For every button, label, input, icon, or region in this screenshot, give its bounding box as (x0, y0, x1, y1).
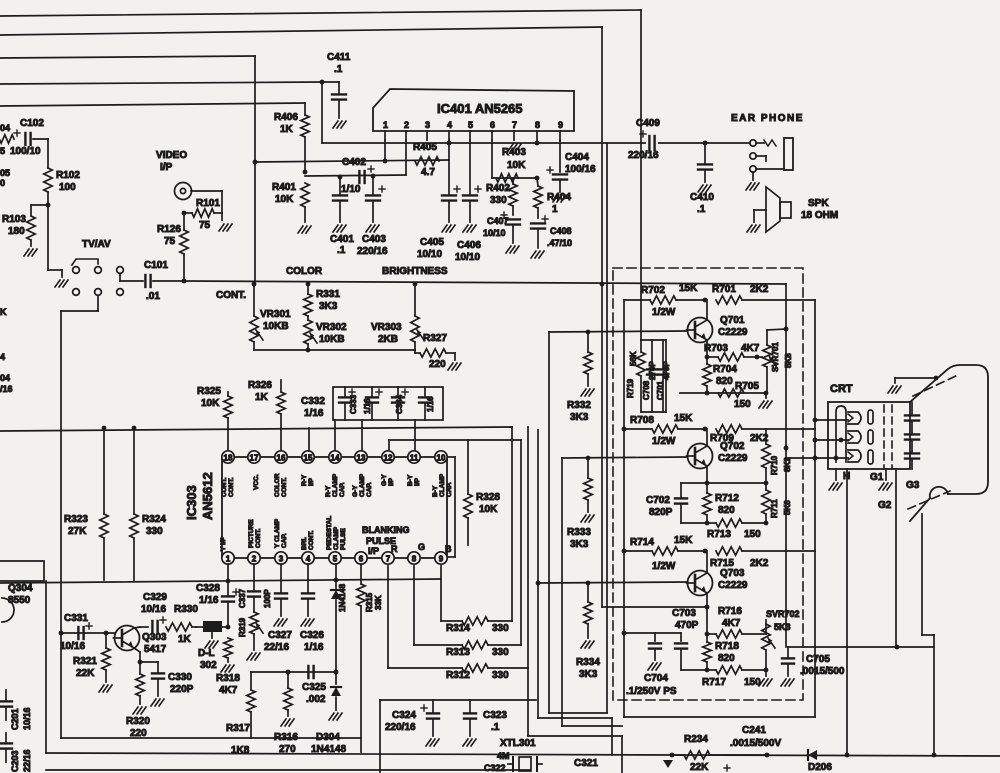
svg-text:R403: R403 (502, 147, 526, 158)
capacitor C323 (469, 700, 471, 712)
wire R312 x=528 (527, 427, 529, 736)
svg-text:B-Y: B-Y (432, 485, 439, 497)
node SVR701 wiper bus (784, 327, 789, 332)
svg-text:CLAMP: CLAMP (332, 473, 339, 497)
wire R703 to SVR701 (757, 356, 762, 358)
svg-text:R404: R404 (547, 192, 571, 203)
svg-text:220/16: 220/16 (357, 246, 388, 257)
svg-text:R708: R708 (630, 415, 654, 426)
resistor R319 (250, 612, 258, 634)
pedestal cap box (333, 387, 443, 420)
svg-text:R102: R102 (56, 170, 80, 181)
svg-text:C701: C701 (656, 380, 665, 400)
wire vertical x=255 (254, 56, 256, 285)
svg-text:G-Y: G-Y (381, 474, 388, 486)
svg-text:VCC.: VCC. (253, 474, 260, 490)
CRT bell outline (910, 365, 988, 494)
svg-text:CAP.: CAP. (366, 482, 373, 497)
IC U-IC303 AN5612 box (222, 457, 447, 558)
ground pin7 IC401 (508, 144, 513, 151)
resistor R404 (537, 178, 538, 186)
wire y=428 long (0, 427, 512, 431)
wire x=46 (45, 581, 47, 753)
resistor R712 (706, 483, 708, 493)
svg-text:330: 330 (146, 526, 163, 537)
svg-text:R315: R315 (365, 592, 374, 612)
svg-text:C408: C408 (550, 226, 572, 236)
resistor R126 (183, 213, 185, 230)
resistor R103 (31, 204, 48, 206)
svg-text:R318: R318 (216, 673, 240, 684)
svg-text:VR302: VR302 (316, 322, 347, 333)
svg-text:PULSE: PULSE (340, 528, 347, 550)
wire top bus line 3 (0, 56, 255, 58)
node R323 (102, 426, 107, 431)
resistor R406 (304, 103, 306, 115)
svg-text:C2229: C2229 (718, 453, 748, 464)
svg-text:4K7: 4K7 (741, 343, 760, 354)
svg-text:PEDESTAL: PEDESTAL (326, 516, 333, 550)
wire top bus line 4 (0, 82, 322, 84)
CRT cathode wire K3 (786, 457, 848, 459)
wire pin8 to R313 row (413, 566, 415, 645)
node R126 top (182, 211, 187, 216)
svg-text:5: 5 (0, 146, 5, 156)
box bottom center (380, 699, 536, 701)
svg-text:G1: G1 (870, 472, 884, 483)
wire Q701 emitter (706, 340, 708, 357)
node DL junction (226, 625, 231, 630)
svg-text:R314: R314 (446, 623, 470, 634)
node VR301 top (252, 282, 257, 287)
wire C704 row (624, 632, 681, 634)
node R324 (132, 426, 137, 431)
wire y=770 (46, 769, 530, 771)
resistor R705 (718, 389, 744, 397)
svg-text:R324: R324 (142, 514, 166, 525)
resistor R703 row (707, 356, 718, 358)
svg-text:220/16: 220/16 (628, 150, 659, 161)
pot SVR702 (765, 620, 767, 634)
svg-text:1: 1 (226, 555, 231, 564)
resistor R719 (640, 340, 642, 352)
svg-text:17: 17 (250, 454, 259, 463)
svg-text:10KB: 10KB (319, 334, 345, 345)
svg-text:R701: R701 (712, 284, 736, 295)
svg-text:302: 302 (200, 660, 217, 671)
svg-text:CONT.: CONT. (221, 477, 228, 497)
svg-text:Q703: Q703 (720, 568, 745, 579)
svg-text:R323: R323 (64, 514, 88, 525)
svg-text:9: 9 (558, 120, 563, 130)
capacitor C703 (680, 633, 682, 641)
svg-text:75: 75 (164, 236, 176, 247)
svg-text:8550: 8550 (8, 595, 31, 606)
node C411 junction (320, 80, 325, 85)
wire Q701 collector (706, 300, 708, 320)
svg-text:10K: 10K (275, 194, 294, 205)
svg-text:CLAMP: CLAMP (359, 473, 366, 497)
svg-text:BRI.: BRI. (301, 537, 308, 550)
svg-text:R711: R711 (770, 499, 779, 518)
capacitor C325 row (251, 671, 336, 673)
wire C705 row y=647 (788, 646, 934, 648)
svg-text:15: 15 (304, 454, 313, 463)
resistor R328 (467, 440, 469, 494)
svg-text:5K6: 5K6 (783, 500, 792, 515)
svg-text:CAP.: CAP. (339, 482, 346, 497)
wire R314 up x=512 (511, 427, 513, 621)
transistor Q701 (688, 318, 713, 343)
IC401 pin stubs (384, 131, 386, 140)
node R334 top (586, 581, 591, 586)
svg-text:5417: 5417 (144, 644, 167, 655)
svg-text:470P: 470P (662, 361, 671, 380)
svg-text:R327: R327 (423, 333, 447, 344)
resistor R702 row (624, 299, 650, 301)
svg-text:220: 220 (429, 359, 446, 370)
svg-text:COLOR: COLOR (274, 473, 281, 497)
svg-text:R234: R234 (684, 734, 708, 745)
svg-text:15K: 15K (679, 283, 698, 294)
wire R313 up x=521 (520, 440, 522, 645)
svg-text:330: 330 (492, 623, 509, 634)
svg-text:12: 12 (384, 454, 393, 463)
svg-text:2K2: 2K2 (750, 558, 769, 569)
ground CRT H pin (835, 469, 837, 480)
resistor R102 (47, 139, 49, 168)
capacitor C708 (651, 340, 653, 368)
svg-text:R312: R312 (446, 670, 470, 681)
svg-text:R713: R713 (707, 529, 731, 540)
svg-text:.002: .002 (306, 694, 326, 705)
label C241 (724, 767, 730, 769)
svg-text:R703: R703 (704, 343, 728, 354)
IC303 top pins (222, 451, 234, 463)
svg-text:1N4148: 1N4148 (338, 583, 347, 612)
resistor R313 (414, 644, 462, 646)
svg-text:1/10: 1/10 (341, 184, 361, 195)
resistor R708 row (624, 428, 652, 430)
svg-text:C403: C403 (362, 234, 386, 245)
svg-text:R321: R321 (73, 656, 97, 667)
svg-text:04: 04 (0, 373, 10, 383)
CRT gun 3 (848, 450, 861, 462)
wire x=786 wiper bus (785, 284, 787, 647)
svg-text:18 OHM: 18 OHM (801, 210, 838, 221)
svg-text:R326: R326 (248, 380, 272, 391)
wire Q702 emitter rail (681, 482, 766, 484)
node R401 top (303, 170, 308, 175)
svg-text:15K: 15K (674, 535, 693, 546)
svg-text:14: 14 (331, 454, 340, 463)
CRT cathode wire K2 (815, 439, 848, 441)
svg-text:15K: 15K (674, 413, 693, 424)
CRT funnel lines (921, 514, 923, 635)
ground R101 (221, 213, 223, 220)
node bus x934 (932, 753, 937, 758)
svg-text:.47/10: .47/10 (547, 238, 572, 248)
wire vertical x=61 (60, 311, 62, 738)
svg-text:10/16: 10/16 (60, 641, 85, 652)
svg-text:2: 2 (252, 555, 257, 564)
svg-text:C2229: C2229 (718, 580, 748, 591)
node pin8 chain (535, 176, 540, 181)
svg-text:R-Y: R-Y (325, 485, 332, 497)
wire pin6 stub (491, 140, 493, 178)
svg-text:R718: R718 (715, 641, 739, 652)
node C101-R126 (182, 279, 187, 284)
node pin1 line (226, 579, 231, 584)
svg-text:33K: 33K (374, 595, 383, 610)
svg-text:C325: C325 (302, 682, 326, 693)
node R716 row (705, 632, 710, 637)
svg-text:C332: C332 (301, 396, 325, 407)
wire y=738 (61, 737, 361, 739)
resistor R405 (415, 157, 439, 165)
resistor R333 (587, 458, 589, 478)
svg-text:5K3: 5K3 (774, 622, 791, 632)
svg-text:10KB: 10KB (263, 321, 289, 332)
resistor R701 (716, 296, 742, 304)
svg-text:G-Y: G-Y (352, 485, 359, 497)
resistor R330 (166, 623, 192, 631)
svg-text:22K: 22K (690, 762, 709, 773)
svg-text:1K: 1K (280, 124, 294, 135)
node R333 top (586, 456, 591, 461)
svg-text:4K7: 4K7 (722, 618, 741, 629)
svg-text:6: 6 (359, 555, 364, 564)
capacitor C704 (654, 633, 656, 641)
svg-text:820: 820 (716, 376, 733, 387)
svg-text:.1: .1 (337, 245, 346, 256)
svg-text:1/16: 1/16 (304, 642, 324, 653)
resistor R101 (214, 212, 222, 214)
node pin1 (383, 159, 388, 164)
svg-text:100/10: 100/10 (10, 146, 41, 157)
svg-text:22K: 22K (76, 668, 95, 679)
diode D304 (335, 672, 337, 684)
resistor R718 (706, 634, 708, 642)
resistor R315 (360, 564, 362, 584)
node emitter rail (138, 660, 143, 665)
wire vertical bus x=641 (640, 10, 642, 340)
svg-text:10K: 10K (201, 398, 220, 409)
dashed box PS section (613, 268, 803, 700)
svg-text:B: B (445, 544, 452, 554)
capacitor C410 (704, 143, 706, 163)
svg-text:IC401 AN5265: IC401 AN5265 (437, 101, 523, 116)
svg-text:R705: R705 (735, 381, 759, 392)
capacitor C334 (397, 387, 399, 396)
node C410 top (703, 141, 708, 146)
capacitor C408 (542, 218, 548, 220)
svg-text:.0015/500V: .0015/500V (730, 738, 781, 749)
resistor R324 (133, 428, 135, 514)
svg-text:1/2W: 1/2W (652, 307, 676, 318)
IC U-IC401 AN5265 box (373, 89, 574, 131)
svg-text:220P: 220P (170, 684, 194, 695)
node pin4 on y143 (447, 141, 452, 146)
svg-text:C102: C102 (20, 118, 44, 129)
svg-text:1K: 1K (255, 392, 269, 403)
pot VR303 (414, 284, 416, 316)
svg-text:C201: C201 (10, 708, 20, 730)
svg-text:3: 3 (425, 120, 430, 130)
capacitor C404 (559, 140, 561, 172)
wire Q703 collector (706, 551, 708, 572)
svg-text:C333: C333 (349, 394, 358, 414)
node R321 top (104, 631, 109, 636)
node R708-R709 (703, 427, 708, 432)
wire pot bottom rail (254, 349, 415, 351)
delay line D-L 302 (196, 626, 203, 628)
svg-text:1/2W: 1/2W (652, 436, 676, 447)
svg-text:K: K (0, 307, 7, 317)
svg-text:820P: 820P (649, 507, 673, 518)
capacitor C326 pin4 (307, 564, 309, 592)
svg-text:I/P: I/P (368, 546, 379, 556)
svg-text:10/10: 10/10 (417, 249, 442, 260)
svg-text:820: 820 (718, 653, 735, 664)
wire top bus line 2 (0, 27, 602, 35)
svg-text:R320: R320 (126, 716, 150, 727)
transistor Q303 (115, 626, 140, 651)
resistor R317 (250, 672, 252, 690)
svg-text:330: 330 (492, 647, 509, 658)
svg-text:CONT.: CONT. (216, 290, 246, 301)
svg-text:C410: C410 (690, 192, 714, 203)
wire pin1 row y=162 (255, 160, 449, 162)
wire R717 row (681, 669, 707, 671)
svg-text:2KB: 2KB (378, 334, 398, 345)
svg-text:05: 05 (0, 168, 10, 178)
svg-text:13: 13 (357, 454, 366, 463)
capacitor C407 (506, 218, 520, 220)
svg-text:.1: .1 (334, 64, 343, 75)
svg-text:R332: R332 (567, 400, 591, 411)
capacitor C405 (448, 160, 450, 194)
svg-text:R-Y: R-Y (301, 474, 308, 486)
svg-text:.0015/500: .0015/500 (800, 666, 845, 677)
svg-text:3K3: 3K3 (579, 669, 598, 680)
capacitor C401 (339, 177, 341, 194)
node R714 row left (622, 549, 627, 554)
svg-text:CLAMP: CLAMP (333, 526, 340, 550)
svg-text:C2229: C2229 (718, 327, 748, 338)
svg-text:5: 5 (468, 120, 473, 130)
capacitor C705 (787, 647, 789, 657)
svg-text:18: 18 (224, 454, 233, 463)
node R102 bottom (46, 203, 51, 208)
svg-text:4: 4 (0, 352, 5, 362)
svg-text:VIDEO: VIDEO (156, 150, 187, 161)
capacitor C203 (5, 733, 7, 742)
svg-text:CONT.: CONT. (308, 530, 315, 550)
svg-text:10: 10 (437, 454, 446, 463)
resistor R312 (388, 667, 462, 669)
svg-text:C405: C405 (420, 237, 444, 248)
capacitor C403 (372, 176, 374, 194)
svg-text:C337: C337 (238, 588, 247, 608)
wire pedestal stubs (334, 420, 336, 451)
wire Q702 base (562, 457, 687, 458)
svg-text:10K: 10K (479, 504, 498, 515)
svg-text:CONT.: CONT. (228, 477, 235, 497)
node emitter R703 (705, 355, 710, 360)
ground earphone jack (752, 172, 754, 180)
svg-text:C203: C203 (10, 750, 20, 772)
svg-text:9: 9 (439, 555, 444, 564)
node C403 top (371, 174, 376, 179)
svg-text:C404: C404 (565, 152, 589, 163)
capacitor C402 (358, 171, 360, 183)
svg-text:330: 330 (490, 195, 507, 206)
capacitor C329 (151, 621, 153, 633)
svg-text:C241: C241 (742, 725, 766, 736)
wire top bus line 5 (0, 103, 305, 106)
capacitor C411 (322, 81, 339, 83)
svg-text:100P: 100P (263, 589, 272, 608)
resistor R711 (765, 483, 767, 490)
capacitor C324 (432, 700, 434, 712)
svg-text:.1: .1 (697, 204, 706, 215)
resistor R332 (587, 332, 589, 352)
wire G2 (895, 469, 897, 647)
solid box 700 left edge (623, 300, 625, 717)
node emitter rail Q702 (705, 481, 710, 486)
svg-text:C321: C321 (574, 758, 598, 769)
svg-text:820: 820 (718, 505, 735, 516)
svg-text:C334: C334 (395, 394, 404, 414)
svg-text:R405: R405 (413, 142, 437, 153)
wire to TV/AV switch (47, 205, 49, 270)
svg-text:C330: C330 (168, 672, 192, 683)
wire Q303 emitter (134, 648, 140, 652)
svg-text:R: R (391, 544, 398, 554)
resistor R318 (224, 638, 232, 658)
resistor R320 (139, 662, 141, 674)
svg-text:VR303: VR303 (371, 322, 402, 333)
resistor R334 (587, 583, 589, 602)
svg-text:R710: R710 (770, 455, 779, 475)
diode D206 (808, 750, 817, 760)
capacitor C331 (77, 627, 79, 639)
svg-text:R714: R714 (630, 537, 654, 548)
svg-text:PICTURE: PICTURE (248, 519, 255, 548)
svg-text:I/P: I/P (388, 477, 395, 486)
wire contrast bus y=284 (184, 281, 786, 284)
node R714-R715 (703, 549, 708, 554)
wire Q701 base (549, 331, 687, 332)
CRT socket box (828, 402, 910, 469)
svg-text:11: 11 (410, 454, 419, 463)
svg-text:R126: R126 (157, 224, 181, 235)
capacitor C332 (344, 387, 346, 396)
wire pin2 stub (405, 140, 407, 175)
svg-text:1/16: 1/16 (363, 398, 372, 414)
svg-text:3K3: 3K3 (319, 301, 338, 312)
node x786 K3 (784, 446, 789, 451)
CRT anode caps (911, 402, 913, 414)
svg-text:C702: C702 (646, 495, 670, 506)
svg-text:.1/250V PS: .1/250V PS (626, 686, 677, 697)
svg-text:R328: R328 (476, 492, 500, 503)
wire pin9 to R314 row (440, 566, 442, 621)
transistor Q703 (688, 571, 713, 596)
wire Q702 emitter (706, 466, 708, 483)
svg-text:Q304: Q304 (8, 583, 33, 594)
